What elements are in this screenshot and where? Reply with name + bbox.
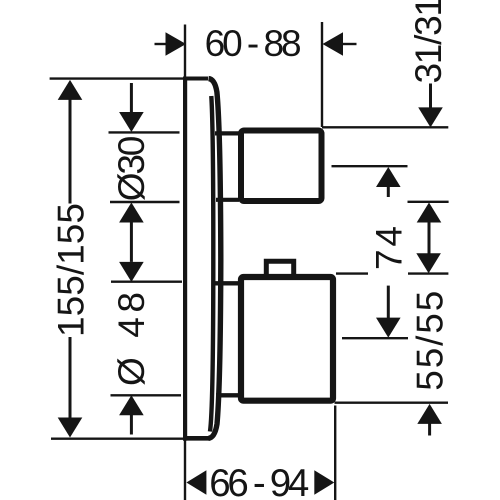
svg-text:31/31: 31/31 [408, 0, 449, 84]
svg-text:66 - 94: 66 - 94 [209, 462, 309, 500]
svg-text:55/55: 55/55 [410, 291, 451, 391]
svg-text:60 - 88: 60 - 88 [205, 23, 302, 64]
svg-text:155/155: 155/155 [50, 203, 91, 337]
svg-text:Ø30: Ø30 [111, 136, 152, 202]
